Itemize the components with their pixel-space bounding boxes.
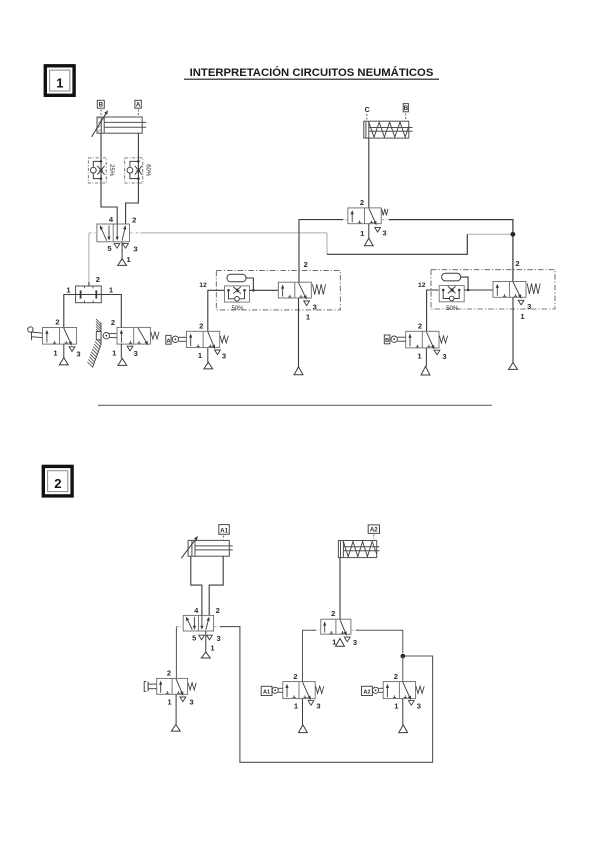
pilot feed line T1: [250, 289, 279, 291]
exhaust 3 of timer T2: [518, 300, 531, 321]
cylinder A2 (single acting spring return): [338, 541, 379, 558]
wire + supply 1 of timer T1: [294, 298, 303, 375]
exhaust 3 of V2: [127, 346, 133, 351]
cylinder A (double-acting): [92, 110, 147, 137]
svg-text:2: 2: [167, 669, 171, 678]
wire cylinder A left port to valve port 4: [101, 133, 117, 224]
svg-text:50%: 50%: [446, 306, 459, 312]
port labels WB: [167, 669, 194, 707]
exhaust 3 of V0: [123, 244, 129, 249]
exhaust 3 of WA1: [308, 701, 314, 706]
label B (cylinder A rod-end sensor): [97, 100, 104, 116]
exhaust 3 of W0: [207, 635, 213, 640]
3/2 valve V4 (limit B): [406, 331, 448, 349]
wire shuttle left to V1: [64, 295, 76, 328]
3/2 valve WB (push button): [157, 678, 197, 695]
limit label A1 + roller of WA1: [261, 686, 283, 695]
svg-text:3: 3: [133, 244, 137, 253]
timer dashed enclosure T2: [431, 270, 555, 309]
wire + supply 1 of W0: [201, 631, 210, 658]
port labels V4: [417, 322, 446, 362]
port labels WA2: [394, 672, 421, 711]
timer dashed enclosure T1: [216, 271, 340, 310]
wire V3 output up to timer T1 port 12: [208, 290, 224, 331]
push button actuator of WB: [144, 682, 157, 692]
wire cylinder A1 right port to 5/2 port 2: [209, 556, 223, 615]
3/2 valve WA1 (limit A1): [283, 682, 324, 701]
3/2 valve WA2 (limit A2): [383, 682, 424, 701]
pilot staircase dark segment: [327, 234, 467, 254]
pilot stub left of V0: [89, 232, 97, 234]
pilot stub right of W0: [214, 626, 223, 628]
section box 1: [45, 66, 74, 96]
exhaust 3 of timer T1: [304, 301, 317, 322]
junction node: [511, 232, 516, 237]
air reservoir T1: [227, 274, 255, 291]
wire + supply 1 of WA2: [399, 699, 408, 733]
port labels VC: [360, 198, 387, 238]
wire + supply 1 of V2: [118, 344, 127, 366]
wire junction 2 down to valve WA2: [402, 656, 404, 682]
separator line: [98, 404, 492, 406]
pilot wire V0 right to staircase: [141, 233, 327, 254]
wire WC right pilot to junction 2: [356, 630, 403, 653]
page title: [184, 66, 439, 79]
svg-text:INTERPRETACIÓN CIRCUITOS NEUMÁ: INTERPRETACIÓN CIRCUITOS NEUMÁTICOS: [190, 66, 434, 79]
roller actuator of V1: [28, 327, 43, 340]
air reservoir T2: [442, 273, 470, 291]
exhaust 5 of W0: [199, 635, 205, 640]
svg-text:12: 12: [418, 282, 426, 289]
svg-text:3: 3: [134, 349, 138, 358]
svg-text:3: 3: [222, 352, 226, 361]
svg-text:A2: A2: [363, 690, 370, 696]
pilot feed line T2: [464, 289, 493, 291]
3/2 valve V3 (limit A): [186, 331, 228, 349]
svg-text:2: 2: [394, 672, 398, 681]
exhaust 3 of VC: [375, 227, 381, 232]
port labels 5/2 V0: [107, 215, 137, 264]
svg-text:3: 3: [382, 229, 386, 238]
T marks V2 extra: [0, 0, 1, 1]
svg-text:2: 2: [360, 198, 364, 207]
cylinder A1 (double acting): [181, 536, 233, 558]
port labels WA1: [293, 672, 320, 711]
svg-text:3: 3: [189, 698, 193, 707]
svg-text:2: 2: [304, 260, 308, 269]
port labels V1: [53, 318, 80, 359]
wire + supply 1 of timer T2: [509, 297, 518, 369]
pilot stub right of WC: [351, 629, 359, 631]
pilot stub left of VC: [340, 219, 348, 221]
wire + supply 1 of V1: [59, 344, 68, 365]
wire cylinder A right port to valve port 2: [126, 133, 139, 224]
svg-text:C: C: [365, 107, 370, 114]
wire W0 left pilot down to button valve: [175, 627, 177, 679]
pilot stub left of W0: [176, 626, 183, 628]
3/2 valve WC (under A2): [321, 619, 351, 636]
pilot stub left of WC: [314, 629, 321, 631]
svg-text:3: 3: [216, 634, 220, 643]
section box 2: [43, 466, 72, 496]
exhaust 3 of WC: [344, 637, 350, 642]
label B boxed (cylinder C sensor): [403, 104, 408, 120]
svg-text:3: 3: [76, 350, 80, 359]
wire cylinder A1 left port to 5/2 port 4: [191, 556, 202, 615]
label A (cylinder A head-end sensor): [135, 100, 141, 116]
svg-text:3: 3: [442, 352, 446, 361]
svg-text:3: 3: [353, 638, 357, 647]
wire + supply 1 of V4: [421, 348, 430, 375]
pilot stub right of VC: [381, 219, 392, 221]
wire V4 output up to timer T2 port 12: [427, 290, 439, 331]
5/2 valve V0: [97, 224, 130, 242]
wire + supply 1 of V3: [204, 348, 213, 369]
wire cylinder C to valve VC: [368, 138, 370, 208]
exhaust 3 of V1: [69, 347, 75, 352]
port labels V2: [111, 318, 138, 358]
pilot stub right of V0: [130, 232, 142, 234]
label A2 boxed: [368, 525, 379, 539]
cam wall (hatched): [88, 319, 102, 368]
svg-text:12: 12: [199, 282, 207, 289]
wire shuttle right to V2: [101, 295, 121, 329]
shuttle valve (OR): [76, 282, 102, 303]
exhaust 3 of V4: [434, 350, 440, 355]
svg-text:A1: A1: [263, 690, 270, 696]
wire VC right pilot to junction: [389, 220, 513, 235]
svg-text:2: 2: [331, 609, 335, 618]
3/2 valve VC (centre): [348, 208, 388, 225]
flow control 50% T2: [439, 286, 464, 312]
svg-text:3: 3: [313, 303, 317, 312]
wire WC left pilot to valve WA1: [303, 630, 317, 681]
port labels WC: [331, 609, 357, 647]
limit label A + roller of V3: [166, 335, 187, 344]
cylinder C (single acting spring return): [364, 121, 413, 138]
flow control 50% T1: [225, 286, 250, 312]
svg-text:2: 2: [515, 259, 519, 268]
svg-text:3: 3: [417, 702, 421, 711]
svg-text:2: 2: [55, 318, 59, 327]
svg-text:A: A: [166, 338, 170, 344]
exhaust 3 of V3: [215, 350, 221, 355]
svg-text:25%: 25%: [108, 164, 114, 177]
label 2 above timer T1: [304, 260, 308, 269]
pilot wire to junction: [467, 233, 513, 235]
svg-text:50%: 50%: [231, 306, 244, 312]
junction node 2: [401, 654, 406, 659]
wire junction down to timer T2 port 2: [512, 236, 514, 281]
wire shuttle to V0 left pilot: [88, 233, 90, 286]
svg-text:2: 2: [96, 275, 100, 284]
shuttle port labels: [66, 275, 114, 295]
label 2 above timer T2: [515, 259, 519, 268]
svg-text:3: 3: [527, 302, 531, 311]
timer 3/2 valve T2: [493, 282, 540, 299]
svg-text:B: B: [404, 105, 409, 112]
label 12 at timer T1 input: [199, 282, 207, 289]
svg-text:3: 3: [316, 702, 320, 711]
exhaust 3 of WB: [180, 697, 186, 702]
svg-text:B: B: [99, 101, 104, 108]
limit label A2 + roller of WA2: [362, 686, 384, 695]
svg-text:2: 2: [132, 215, 136, 224]
roller actuator of V2: [103, 333, 116, 339]
svg-text:2: 2: [216, 606, 220, 615]
wire W0 right pilot to U-loop: [220, 627, 433, 763]
flow control valve 25%: [88, 158, 114, 183]
label A1 boxed: [219, 525, 230, 540]
3/2 valve V1: [43, 328, 77, 346]
supply 1 of WC: [336, 638, 345, 646]
svg-text:60%: 60%: [144, 164, 150, 177]
svg-text:2: 2: [199, 322, 203, 331]
3/2 valve V2 (roller against wall): [117, 327, 159, 345]
exhaust 5 of V0: [114, 244, 120, 249]
svg-text:2: 2: [293, 672, 297, 681]
wire cylinder A2 to valve WC: [339, 558, 341, 620]
flow control valve 60%: [125, 158, 151, 183]
port labels V3: [198, 322, 226, 361]
svg-text:B: B: [385, 338, 389, 344]
wire + supply 1 of WA1: [299, 699, 308, 733]
label C (cylinder C): [365, 107, 370, 120]
svg-text:2: 2: [418, 322, 422, 331]
svg-text:2: 2: [54, 476, 61, 491]
svg-text:A2: A2: [370, 527, 378, 534]
svg-text:A1: A1: [220, 528, 228, 535]
wire + supply 1 of V0: [118, 242, 127, 266]
svg-text:1: 1: [56, 76, 63, 91]
timer 3/2 valve T1: [278, 282, 325, 299]
svg-text:A: A: [136, 101, 141, 108]
wire + supply 1 of VC: [364, 224, 373, 246]
wire + supply 1 of WB: [171, 694, 180, 731]
svg-text:2: 2: [111, 318, 115, 327]
label 12 at timer T2 input: [418, 282, 426, 289]
limit label B + roller of V4: [384, 335, 405, 344]
port labels W0: [192, 606, 221, 653]
exhaust 3 of WA2: [409, 701, 415, 706]
5/2 valve W0: [183, 615, 213, 631]
wire VC left pilot to timer T1 port 2: [299, 220, 343, 282]
